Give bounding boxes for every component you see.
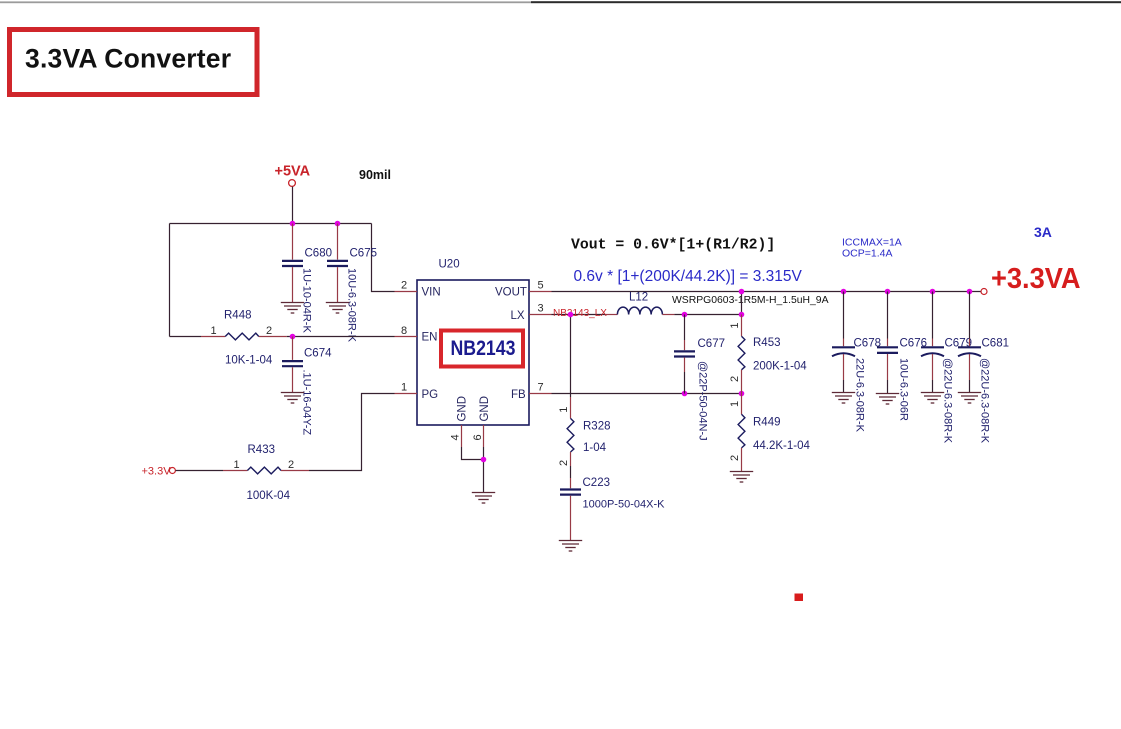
capacitor C674: [282, 337, 332, 436]
svg-text:GND: GND: [457, 396, 469, 422]
pin 2 VIN stub: [395, 291, 418, 293]
svg-text:10K-1-04: 10K-1-04: [225, 355, 273, 367]
svg-text:2: 2: [288, 459, 294, 471]
svg-text:2: 2: [266, 325, 272, 337]
svg-text:VOUT: VOUT: [495, 287, 527, 299]
svg-text:C674: C674: [304, 348, 332, 360]
svg-text:1-04: 1-04: [583, 442, 607, 454]
svg-text:2: 2: [729, 455, 741, 461]
ground for C223: [559, 541, 582, 552]
svg-text:1: 1: [729, 322, 741, 328]
ground for C678: [832, 393, 855, 404]
svg-text:EN: EN: [422, 332, 438, 344]
node junction rail/C678: [841, 289, 847, 295]
svg-text:R453: R453: [753, 337, 781, 349]
svg-text:0.6v * [1+(200K/44.2K)] = 3.31: 0.6v * [1+(200K/44.2K)] = 3.315V: [574, 268, 803, 285]
svg-text:LX: LX: [511, 310, 525, 322]
capacitor C677: [674, 315, 725, 441]
resistor R453: [729, 315, 807, 394]
node junction VOUT/R453: [739, 289, 745, 295]
svg-text:C681: C681: [982, 338, 1010, 350]
svg-text:1: 1: [558, 407, 570, 413]
svg-text:3A: 3A: [1034, 224, 1052, 240]
node junction FB/C677: [682, 391, 688, 397]
resistor R433: [176, 444, 309, 502]
svg-text:R433: R433: [248, 444, 276, 456]
svg-text:4: 4: [450, 434, 462, 440]
ground for C676: [876, 394, 899, 405]
svg-text:FB: FB: [511, 389, 526, 401]
pin 7 FB stub: [529, 393, 552, 395]
svg-text:1000P-50-04X-K: 1000P-50-04X-K: [583, 499, 666, 511]
inductor L12: [605, 292, 828, 315]
svg-text:C680: C680: [305, 247, 333, 259]
capacitor C680: [282, 224, 332, 334]
svg-text:C223: C223: [583, 477, 611, 489]
svg-text:6: 6: [472, 434, 484, 440]
node junction +5VA/C680: [290, 221, 296, 227]
capacitor C223: [560, 466, 665, 540]
sheet border top line gray segment: [0, 1, 531, 3]
svg-text:WSRPG0603-1R5M-H_1.5uH_9A: WSRPG0603-1R5M-H_1.5uH_9A: [672, 295, 829, 306]
wire LX to inductor: [552, 314, 606, 316]
wire top bus: [170, 223, 372, 225]
capacitor C679 (polarized): [921, 292, 972, 444]
node junction GND pins: [481, 457, 487, 463]
node junction rail/C679: [930, 289, 936, 295]
svg-text:+3.3V: +3.3V: [142, 466, 172, 478]
svg-text:NB2143: NB2143: [451, 336, 516, 360]
node junction LX/snubber: [568, 312, 574, 318]
svg-text:1: 1: [401, 382, 407, 394]
node junction rail/C676: [885, 289, 891, 295]
pin 5 VOUT stub: [529, 291, 552, 293]
svg-text:R328: R328: [583, 421, 611, 433]
pin 8 EN stub: [395, 336, 418, 338]
svg-text:U20: U20: [439, 259, 460, 271]
wire +5VA drop: [292, 187, 294, 224]
svg-text:+5VA: +5VA: [275, 164, 311, 180]
svg-text:2: 2: [558, 460, 570, 466]
wire FB net: [552, 393, 742, 395]
power net +3.3V terminal circle: [169, 468, 175, 474]
svg-text:@22U-6.3-08R-K: @22U-6.3-08R-K: [942, 358, 954, 444]
wire R433 to PG: [309, 394, 395, 471]
svg-text:7: 7: [538, 382, 544, 394]
wire GND pins to ground: [462, 447, 484, 485]
power net +3.3VA terminal circle: [981, 289, 987, 295]
node junction FB/R453/R449: [739, 391, 745, 397]
svg-text:90mil: 90mil: [359, 168, 391, 182]
resistor R448: [170, 310, 395, 367]
resistor R328: [558, 397, 611, 466]
ground for U20: [472, 493, 495, 504]
svg-text:1: 1: [729, 401, 741, 407]
svg-text:PG: PG: [422, 389, 439, 401]
svg-text:200K-1-04: 200K-1-04: [753, 361, 807, 373]
svg-text:10U-6.3-08R-K: 10U-6.3-08R-K: [346, 268, 358, 343]
ground for C680: [281, 303, 304, 314]
svg-text:C678: C678: [854, 338, 882, 350]
svg-text:44.2K-1-04: 44.2K-1-04: [753, 440, 811, 452]
svg-text:OCP=1.4A: OCP=1.4A: [842, 248, 893, 260]
node junction Lout: [739, 312, 745, 318]
resistor R449: [729, 394, 811, 472]
svg-text:2: 2: [401, 280, 407, 292]
sheet border top line black segment: [531, 1, 1121, 3]
svg-text:L12: L12: [629, 292, 648, 304]
title block box: [10, 30, 258, 95]
svg-text:R448: R448: [224, 310, 252, 322]
pin 1 PG stub: [395, 393, 418, 395]
ground for C674: [281, 393, 304, 404]
op-amp / IC U20 NB2143: [395, 259, 552, 448]
capacitor C676: [877, 292, 927, 422]
svg-text:10U-6.3-06R: 10U-6.3-06R: [898, 358, 910, 421]
svg-text:+3.3VA: +3.3VA: [991, 263, 1081, 295]
svg-text:3.3VA Converter: 3.3VA Converter: [25, 44, 231, 74]
svg-text:.1U-16-04Y-Z: .1U-16-04Y-Z: [301, 370, 313, 436]
svg-text:NB2143_LX: NB2143_LX: [553, 308, 607, 319]
svg-text:1: 1: [211, 325, 217, 337]
NB2143 red label box: [441, 331, 523, 367]
wire VOUT rail: [552, 291, 982, 293]
wire snubber drop: [570, 315, 572, 398]
svg-text:5: 5: [538, 280, 544, 292]
node junction R448/C674: [290, 334, 296, 340]
capacitor C681 (polarized): [958, 292, 1009, 444]
svg-text:C675: C675: [350, 247, 378, 259]
wire bus to VIN: [372, 224, 395, 292]
svg-text:3: 3: [538, 303, 544, 315]
node junction LX/C677: [682, 312, 688, 318]
svg-text:@22U-6.3-08R-K: @22U-6.3-08R-K: [979, 358, 991, 444]
pin 3 LX stub: [529, 314, 552, 316]
svg-text:Vout = 0.6V*[1+(R1/R2)]: Vout = 0.6V*[1+(R1/R2)]: [571, 238, 775, 254]
node junction C675: [335, 221, 341, 227]
svg-text:C677: C677: [698, 338, 726, 350]
svg-text:8: 8: [401, 325, 407, 337]
wire inductor to output: [674, 292, 741, 315]
stray red square mark: [795, 594, 804, 602]
svg-text:22U-6.3-08R-K: 22U-6.3-08R-K: [854, 358, 866, 433]
wire left vertical: [169, 224, 171, 337]
ground for C675: [326, 303, 349, 314]
svg-text:1U-10-04R-K: 1U-10-04R-K: [301, 268, 313, 333]
svg-text:VIN: VIN: [422, 287, 441, 299]
svg-text:GND: GND: [479, 396, 491, 422]
svg-text:@22P-50-04N-J: @22P-50-04N-J: [697, 361, 709, 441]
capacitor C675: [327, 224, 377, 343]
svg-text:100K-04: 100K-04: [247, 490, 291, 502]
ground for R449: [730, 472, 753, 483]
svg-text:1: 1: [234, 459, 240, 471]
capacitor C678 (polarized): [832, 292, 881, 433]
power flag +5VA terminal circle: [289, 180, 296, 187]
svg-text:2: 2: [729, 376, 741, 382]
svg-text:R449: R449: [753, 417, 781, 429]
node junction rail/C681: [967, 289, 973, 295]
pin 4 GND stub: [461, 425, 463, 447]
ground for C679: [921, 393, 944, 404]
ground for C681: [958, 393, 981, 404]
pin 6 GND stub: [483, 425, 485, 447]
